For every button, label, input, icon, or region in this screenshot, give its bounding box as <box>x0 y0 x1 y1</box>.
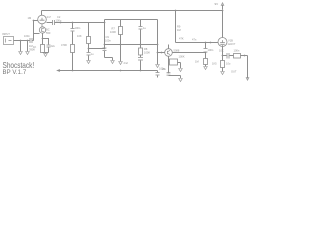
wire out line <box>223 55 248 57</box>
wire x157 riser <box>157 20 159 65</box>
resistor x140 <box>139 48 143 55</box>
wire V+ to V1B plate <box>222 11 224 38</box>
wire x72 branch <box>72 23 74 71</box>
wire Q3 emitter <box>169 57 181 73</box>
svg-text:470K: 470K <box>61 43 67 47</box>
svg-text:100K: 100K <box>144 51 150 55</box>
capacitor x72 <box>71 29 75 32</box>
ground x112 <box>111 61 115 64</box>
svg-text:V1B: V1B <box>228 39 233 43</box>
wire x120 branch <box>120 20 122 62</box>
svg-text:R9: R9 <box>177 25 181 29</box>
ground x88 <box>87 61 91 64</box>
svg-text:9V: 9V <box>215 2 219 6</box>
svg-text:100n: 100n <box>75 26 81 30</box>
wire link y=48 <box>89 48 105 50</box>
svg-text:INPUT: INPUT <box>2 32 10 36</box>
wire V+ branch down x=175 <box>175 11 177 43</box>
wire pulldown right <box>27 41 29 52</box>
wire riser to base <box>34 21 38 41</box>
wire x140 branch <box>140 20 142 71</box>
capacitor x104 <box>103 48 107 51</box>
resistor Q3 emitter <box>170 59 178 65</box>
svg-text:1u: 1u <box>143 26 146 30</box>
svg-text:47K: 47K <box>179 37 184 41</box>
svg-text:1M: 1M <box>195 60 199 64</box>
wire base2 <box>34 33 40 35</box>
ground x120 <box>119 62 123 65</box>
svg-text:BP V.1.7: BP V.1.7 <box>3 70 27 76</box>
wire Q3 collector stub <box>168 45 170 49</box>
resistor Rk <box>41 45 45 53</box>
capacitor x88 <box>87 53 91 56</box>
svg-text:100K: 100K <box>179 55 185 59</box>
svg-text:12AX7: 12AX7 <box>228 42 236 46</box>
svg-text:OUT: OUT <box>231 70 237 74</box>
resistor x72 <box>71 45 75 53</box>
svg-text:100n: 100n <box>24 34 30 38</box>
capacitor x205 <box>204 49 208 53</box>
wire 9V stub <box>222 5 224 10</box>
svg-text:1M: 1M <box>28 16 32 20</box>
transistor Q3 <box>165 49 173 57</box>
svg-text:47n: 47n <box>192 38 197 42</box>
wire x104 branch <box>105 23 113 61</box>
arrow 9V up <box>221 3 224 6</box>
ground cathode <box>44 54 48 57</box>
capacitor below rail <box>156 73 160 76</box>
svg-text:1u: 1u <box>91 52 94 56</box>
wire cathode down <box>42 34 44 45</box>
junction dots <box>20 10 246 74</box>
capacitor C1 <box>30 38 32 43</box>
ground x157 <box>156 65 160 68</box>
svg-text:1K5: 1K5 <box>212 62 217 66</box>
wire V1B cathode <box>222 47 224 56</box>
capacitor C2 coupling <box>53 20 55 25</box>
svg-text:R7: R7 <box>112 27 116 31</box>
wire signal bus <box>56 22 105 24</box>
svg-text:100n: 100n <box>159 66 165 70</box>
svg-text:5088: 5088 <box>174 49 180 53</box>
svg-text:R8: R8 <box>144 47 148 51</box>
wire top supply rail <box>42 10 223 12</box>
svg-text:4n7: 4n7 <box>47 15 52 19</box>
wire to Q3 <box>158 52 165 54</box>
wire x205 branch <box>205 43 207 67</box>
wire after C1 <box>33 40 34 42</box>
wire Q3 emitter cap <box>169 76 181 79</box>
capacitor x140 lower <box>138 58 143 61</box>
capacitor Ck <box>47 45 51 49</box>
wire Ck branch <box>43 39 49 53</box>
svg-text:100K: 100K <box>110 30 116 34</box>
svg-text:10u: 10u <box>226 62 231 66</box>
wire Q3 out <box>173 52 206 54</box>
ground input R <box>26 52 30 55</box>
svg-text:100n: 100n <box>208 48 214 52</box>
resistor Rk2 <box>221 61 225 68</box>
svg-text:10K: 10K <box>77 34 82 38</box>
ground x180 <box>179 69 183 72</box>
wire ground rail <box>58 70 158 72</box>
wire pulldown left <box>20 41 22 52</box>
arrow out jack <box>246 78 249 81</box>
svg-text:22u: 22u <box>51 44 56 48</box>
wire V1B grid lead <box>218 42 219 44</box>
wire feedback top line <box>105 19 158 21</box>
svg-text:100n: 100n <box>234 49 240 53</box>
svg-text:550: 550 <box>46 31 51 35</box>
arrow rail left <box>57 69 60 71</box>
ground x180 low <box>179 79 183 82</box>
svg-text:1K: 1K <box>33 45 36 49</box>
wire y44 line <box>105 44 158 46</box>
svg-text:2n2: 2n2 <box>124 61 129 65</box>
resistor x88 <box>87 37 91 44</box>
wire input <box>14 40 30 42</box>
svg-text:10K: 10K <box>219 49 224 53</box>
ground input L <box>19 52 23 55</box>
capacitor x140 <box>139 27 143 30</box>
wire x88 branch <box>88 23 90 61</box>
wire OUT drop <box>247 56 249 79</box>
wire V1A plate lead <box>41 11 43 16</box>
resistor x120 <box>119 27 123 35</box>
tube V1B <box>218 38 227 47</box>
wire Rk2 <box>222 56 224 72</box>
svg-text:100n: 100n <box>105 39 111 43</box>
transistor Q lower <box>39 27 45 33</box>
svg-text:1M: 1M <box>177 28 181 32</box>
svg-text:C9: C9 <box>106 35 110 39</box>
ground Rk2 <box>221 72 225 75</box>
wire cathode join <box>43 53 49 54</box>
tube V1A upper <box>38 15 47 24</box>
capacitor Q3 bypass <box>167 73 171 75</box>
ground x205 <box>204 67 208 70</box>
svg-text:100n: 100n <box>56 18 62 22</box>
wire below-rail cap <box>157 71 159 78</box>
resistor x205 <box>204 59 208 65</box>
capacitor out <box>227 53 229 59</box>
wire grid line to V1B <box>176 42 218 44</box>
jack IN <box>4 37 14 45</box>
wire plate out <box>47 22 52 24</box>
resistor out <box>234 54 241 59</box>
